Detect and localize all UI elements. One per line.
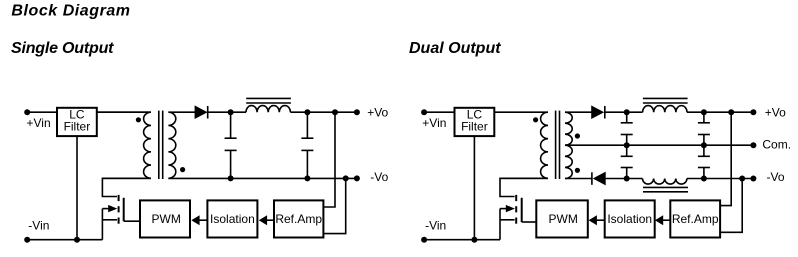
inductor L1: [246, 106, 290, 113]
node C1 bottom junction: [228, 175, 234, 181]
arrow Isolation to PWM: [199, 219, 208, 221]
svg-text:Block Diagram: Block Diagram: [11, 2, 130, 19]
transformer T1 secondary winding: [168, 112, 175, 178]
wire source to -Vin rail: [101, 209, 103, 240]
node -Vin terminal: [24, 237, 30, 243]
block Ref.Amp (dual): [670, 200, 720, 237]
wire Com rail: [565, 144, 753, 146]
transformer T2 secondary top polarity dot: [575, 133, 580, 138]
wire feedback -Vo to Ref.Amp (dual): [720, 179, 742, 233]
wire -Vo rail: [168, 177, 357, 179]
wire LC filter to transformer primary (dual): [494, 111, 548, 113]
transformer T2 secondary top winding: [565, 112, 572, 145]
block Isolation (dual): [605, 200, 655, 237]
node +Vin terminal: [24, 109, 30, 115]
node feedback tap -Vo: [343, 175, 349, 181]
svg-text:+Vin: +Vin: [27, 116, 51, 130]
wire gate to PWM (dual): [522, 221, 537, 223]
block PWM: [140, 200, 190, 237]
transistor Q1 substrate arrow: [102, 208, 110, 210]
diode D3 (reversed): [591, 172, 593, 185]
transformer T2 primary winding: [500, 112, 548, 178]
svg-text:+Vin: +Vin: [422, 116, 446, 130]
wire secondary top to diode: [168, 111, 195, 113]
inductor L2 core lines: [643, 97, 688, 99]
node +Vo terminal: [354, 109, 360, 115]
wire gate to PWM: [124, 220, 140, 222]
wire +Vin to LC filter: [27, 111, 57, 113]
svg-text:Isolation: Isolation: [210, 212, 255, 226]
node -Vin terminal (dual): [421, 237, 427, 243]
wire feedback +Vo to Ref.Amp: [323, 112, 335, 207]
wire feedback -Vo to Ref.Amp: [323, 178, 345, 233]
node cap C4 top junction: [701, 109, 707, 115]
svg-text:Dual Output: Dual Output: [409, 40, 501, 57]
svg-text:-Vo: -Vo: [767, 170, 785, 184]
transistor Q2 substrate arrow: [500, 208, 508, 210]
wire secondary top to diode D2: [565, 111, 592, 113]
wire LC filter to transformer primary: [97, 111, 151, 113]
transistor Q2 MOSFET channel: [515, 195, 517, 201]
block LC Filter U1: [57, 108, 97, 136]
node junction -Vin rail / LC filter: [74, 237, 80, 243]
block LC Filter (dual): [455, 108, 495, 136]
wire diode to node A: [208, 111, 246, 113]
node feedback tap -Vo (dual): [739, 176, 745, 182]
wire secondary bottom to diode D3: [565, 178, 592, 180]
inductor L3 core lines: [643, 186, 688, 188]
node C6 bottom junction: [701, 176, 707, 182]
svg-text:+Vo: +Vo: [367, 106, 388, 120]
node C2 bottom junction: [304, 175, 310, 181]
node -Vo terminal (dual): [750, 176, 756, 182]
inductor L2: [643, 106, 687, 113]
svg-text:PWM: PWM: [152, 212, 181, 226]
node Com terminal: [750, 142, 756, 148]
svg-text:Filter: Filter: [64, 119, 91, 133]
inductor L1 core lines: [246, 97, 291, 99]
block Isolation: [207, 200, 257, 237]
svg-text:Single Output: Single Output: [11, 40, 114, 57]
node feedback tap +Vo: [332, 109, 338, 115]
capacitor C2: [306, 112, 308, 138]
wire inductor to +Vo terminal: [290, 111, 357, 113]
wire inductor L3 to -Vo terminal (dual): [687, 178, 754, 180]
transformer T1 secondary polarity dot: [180, 167, 185, 172]
transformer T2 primary polarity dot: [533, 117, 538, 122]
arrow Ref.Amp to Isolation: [266, 219, 274, 221]
node feedback tap +Vo (dual): [728, 109, 734, 115]
wire feedback +Vo to Ref.Amp (dual): [720, 112, 731, 205]
svg-text:Ref.Amp: Ref.Amp: [275, 212, 322, 226]
transistor Q1 gate: [123, 198, 125, 221]
wire diode D2 to node B: [605, 111, 643, 113]
wire diode D3 to node C: [605, 178, 642, 180]
svg-text:Com.: Com.: [762, 137, 791, 151]
svg-text:-Vo: -Vo: [370, 170, 388, 184]
wire +Vin to LC filter (dual): [424, 111, 454, 113]
transformer T1 primary polarity dot: [136, 117, 141, 122]
transformer T2 core: [555, 111, 557, 179]
transistor Q1 source stub: [102, 219, 117, 221]
node junction -Vin rail / LC filter (dual): [471, 237, 477, 243]
node +Vin terminal (dual): [421, 109, 427, 115]
arrow Ref.Amp to Isolation (dual): [662, 219, 670, 221]
capacitor C3 upper: [626, 112, 628, 123]
node +Vo terminal (dual): [750, 109, 756, 115]
wire LC filter bottom to -Vin rail: [76, 136, 78, 240]
transformer T1 core: [158, 111, 160, 179]
wire -Vin rail (dual): [424, 239, 500, 241]
wire inductor L2 to +Vo terminal (dual): [687, 111, 753, 113]
svg-text:-Vin: -Vin: [425, 218, 446, 232]
capacitor C6 lower: [703, 145, 705, 156]
node cap C2 top junction: [304, 109, 310, 115]
node B diode/cap junction (dual +): [624, 109, 630, 115]
transformer T2 secondary bottom winding: [565, 145, 572, 178]
node C3 Com junction: [624, 142, 630, 148]
node -Vo terminal: [354, 175, 360, 181]
arrow Isolation to PWM (dual): [596, 219, 605, 221]
transistor Q2 gate: [521, 198, 523, 222]
transformer T1 primary winding: [97, 112, 151, 178]
transistor Q1 MOSFET channel: [118, 195, 120, 201]
wire source to -Vin rail (dual): [499, 209, 501, 240]
node C4 Com junction: [701, 142, 707, 148]
capacitor C5 lower: [626, 145, 628, 156]
transformer T2 secondary bottom polarity dot: [575, 168, 580, 173]
block PWM (dual): [536, 200, 588, 237]
svg-text:+Vo: +Vo: [765, 106, 786, 120]
inductor L3 (below line): [643, 179, 687, 185]
capacitor C1: [230, 112, 232, 138]
capacitor C4 upper: [703, 112, 705, 123]
diode D1: [195, 106, 206, 118]
svg-text:Isolation: Isolation: [607, 212, 652, 226]
block Ref.Amp: [274, 200, 323, 237]
transistor Q2 source stub: [500, 219, 515, 221]
node A diode/cap/inductor junction: [228, 109, 234, 115]
diode D2: [592, 106, 603, 118]
wire -Vin rail: [27, 239, 102, 241]
wire primary bottom to MOSFET drain (dual): [500, 178, 548, 196]
svg-text:Ref.Amp: Ref.Amp: [672, 212, 719, 226]
wire primary bottom to MOSFET drain: [102, 178, 151, 196]
svg-text:-Vin: -Vin: [28, 219, 49, 233]
wire LC filter bottom to -Vin rail (dual): [473, 136, 475, 240]
svg-text:PWM: PWM: [549, 212, 578, 226]
node C diode/cap junction (dual -): [624, 176, 630, 182]
svg-text:Filter: Filter: [461, 119, 488, 133]
